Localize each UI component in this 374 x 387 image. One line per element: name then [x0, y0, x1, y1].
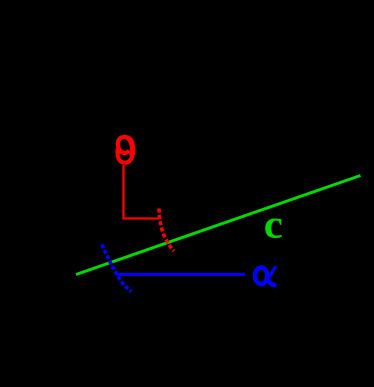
- theta leader line: [124, 165, 160, 219]
- line c (green slanted line): [76, 176, 361, 275]
- label theta (custom script-theta path): [118, 137, 134, 163]
- horizontal line (blue): [117, 273, 245, 276]
- label alpha (custom path): [255, 266, 276, 285]
- angle arc alpha (blue dashed): [102, 245, 132, 292]
- angle arc theta (red dashed): [159, 209, 174, 252]
- svg-text:c: c: [264, 203, 283, 247]
